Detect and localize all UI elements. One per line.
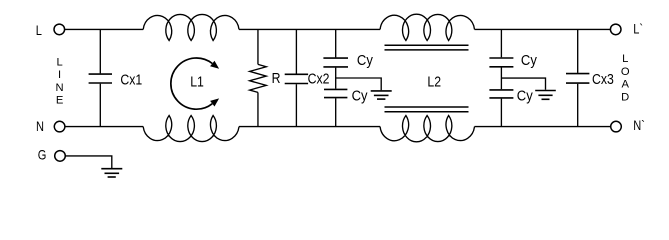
svg-text:L: L [56, 56, 62, 68]
svg-text:Cy: Cy [357, 51, 373, 68]
label Cy1 top [357, 51, 373, 68]
label Cy2 top [521, 51, 537, 68]
svg-text:R: R [272, 70, 281, 86]
svg-text:I: I [58, 69, 61, 81]
wire Cy1 junction to ground [336, 78, 382, 90]
svg-text:A: A [621, 79, 629, 91]
label Cx1 [120, 71, 142, 87]
terminal G [55, 151, 66, 162]
label N [36, 119, 44, 134]
svg-text:Cy: Cy [521, 51, 537, 68]
choke L2 core lines top [385, 45, 469, 50]
svg-text:O: O [621, 66, 630, 78]
label L1 [190, 73, 204, 89]
net label LOAD [621, 53, 630, 103]
svg-text:N: N [36, 119, 44, 134]
label N' [633, 118, 645, 133]
label Cy2 bottom [517, 87, 533, 104]
wire top: L2 to L' terminal [475, 28, 611, 30]
svg-text:L: L [36, 23, 42, 38]
terminal L' [610, 24, 621, 35]
svg-text:L1: L1 [190, 73, 204, 89]
label Cy1 bottom [352, 87, 368, 104]
wire G terminal to ground [65, 156, 112, 168]
label L' [633, 21, 643, 36]
label Cx2 [308, 71, 330, 87]
capacitor Cy2 bottom [489, 90, 513, 127]
wire top: L1 to L2 [239, 28, 380, 30]
svg-text:L`: L` [633, 21, 643, 36]
net label LINE [56, 56, 64, 106]
capacitor Cx2 [285, 29, 308, 126]
svg-text:D: D [621, 91, 629, 103]
capacitor Cy1 bottom [324, 89, 347, 126]
inductor L1 bottom winding [143, 116, 239, 142]
L1 rotation arrow [171, 58, 219, 109]
capacitor Cx3 [566, 29, 589, 126]
label G [38, 147, 47, 162]
inductor L1 top winding [143, 14, 239, 40]
resistor R [250, 29, 267, 126]
capacitor Cy1 top [323, 29, 348, 88]
label L [36, 23, 42, 38]
capacitor Cy2 top [489, 29, 513, 89]
svg-text:E: E [56, 95, 63, 107]
choke L2 bottom winding [380, 116, 474, 142]
svg-text:Cy: Cy [352, 87, 368, 104]
label Cx3 [592, 71, 614, 87]
wire top: L terminal to L1 [64, 28, 143, 30]
wire Cy2 junction to ground [501, 78, 545, 90]
label L2 [427, 73, 441, 89]
svg-text:L: L [622, 53, 628, 65]
wire bottom: L1 to L2 [239, 126, 380, 128]
wire bottom: N terminal to L1 [65, 126, 144, 128]
svg-text:Cx1: Cx1 [120, 71, 142, 87]
wire bottom: L2 to N' terminal [475, 126, 611, 128]
svg-text:Cy: Cy [517, 87, 533, 104]
terminal N' [611, 121, 622, 132]
ground (G) [101, 169, 122, 177]
svg-text:G: G [38, 147, 47, 162]
svg-text:N`: N` [633, 118, 645, 133]
svg-text:L2: L2 [427, 73, 441, 89]
svg-text:Cx3: Cx3 [592, 71, 614, 87]
ground (Cy2) [535, 91, 556, 100]
choke L2 core lines bottom [385, 107, 469, 112]
svg-text:Cx2: Cx2 [308, 71, 330, 87]
label R [272, 70, 281, 86]
choke L2 top winding [380, 14, 474, 40]
capacitor Cx1 [89, 29, 112, 126]
terminal N [54, 121, 65, 132]
ground (Cy1) [371, 91, 392, 99]
terminal L [54, 24, 65, 35]
svg-text:N: N [56, 82, 64, 94]
